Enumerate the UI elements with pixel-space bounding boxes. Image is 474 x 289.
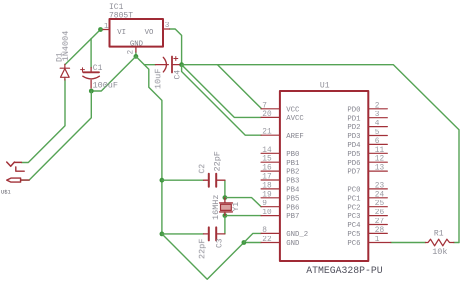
wire C1 minus to jack center: [21, 91, 91, 180]
svg-text:2: 2: [375, 102, 380, 110]
wire 7805 GND pin down: [135, 52, 137, 56]
svg-text:C2: C2: [198, 164, 207, 174]
svg-text:10: 10: [262, 209, 272, 217]
svg-text:2: 2: [128, 50, 136, 55]
svg-text:GND: GND: [130, 41, 144, 49]
svg-text:VI: VI: [117, 29, 126, 37]
svg-text:14: 14: [262, 147, 272, 155]
svg-text:Y1: Y1: [232, 202, 241, 212]
capacitor C3: [204, 227, 225, 240]
svg-text:1: 1: [375, 236, 380, 244]
svg-text:9: 9: [262, 200, 267, 208]
wire C2 right to crystal top: [224, 180, 226, 197]
node C4 plus junction: [179, 62, 184, 67]
svg-text:24: 24: [375, 191, 385, 199]
svg-text:PB4: PB4: [286, 187, 300, 195]
wire C3 left lead link: [162, 233, 204, 235]
node VI junction: [98, 27, 103, 32]
wire GND junction to left gnd bus: [136, 56, 162, 234]
svg-text:1: 1: [104, 23, 109, 31]
regulator pin 1 stub: [103, 29, 110, 31]
svg-text:PD4: PD4: [347, 142, 361, 150]
svg-text:PB3: PB3: [286, 178, 299, 186]
svg-text:PC2: PC2: [347, 204, 360, 212]
svg-text:22pF: 22pF: [213, 151, 223, 171]
svg-text:PD5: PD5: [347, 151, 360, 159]
connector U$1 sleeve contact: [7, 162, 22, 166]
svg-text:ATMEGA328P-PU: ATMEGA328P-PU: [306, 265, 383, 276]
node C1 minus junction: [89, 89, 94, 94]
svg-text:27: 27: [375, 218, 385, 226]
wire GND junction to C1 minus: [91, 56, 136, 91]
svg-text:3: 3: [165, 22, 170, 30]
svg-text:PD3: PD3: [347, 133, 360, 141]
svg-text:21: 21: [262, 129, 272, 137]
svg-text:100uF: 100uF: [93, 81, 119, 91]
capacitor C2: [204, 174, 225, 187]
wire D1 cathode to 7805 VI: [65, 30, 101, 65]
svg-text:PD2: PD2: [347, 124, 360, 132]
svg-text:15: 15: [262, 156, 272, 164]
svg-text:28: 28: [375, 227, 385, 235]
capacitor C4: [156, 57, 180, 73]
svg-text:AREF: AREF: [286, 133, 304, 141]
svg-text:U$1: U$1: [1, 189, 11, 195]
resistor R1: [426, 239, 454, 246]
svg-text:VO: VO: [145, 29, 154, 37]
node gnd pins junction: [242, 240, 247, 245]
crystal Y1: [220, 198, 233, 216]
wire C4 minus link: [144, 64, 155, 66]
wire crystal top to PB6 pin9: [225, 198, 261, 207]
svg-text:PD0: PD0: [347, 106, 360, 114]
svg-text:10k: 10k: [432, 247, 447, 257]
svg-text:23: 23: [375, 182, 385, 190]
svg-text:16: 16: [262, 165, 272, 173]
svg-text:22pF: 22pF: [197, 239, 207, 259]
svg-text:VCC: VCC: [286, 106, 300, 114]
wire crystal bottom to C3 right: [224, 216, 226, 234]
svg-text:10uF: 10uF: [153, 69, 163, 89]
regulator pin 2 stub: [135, 47, 137, 52]
svg-text:R1: R1: [434, 230, 444, 239]
svg-text:22: 22: [262, 236, 272, 244]
svg-text:3: 3: [375, 111, 380, 119]
svg-text:PC3: PC3: [347, 213, 360, 221]
wire junction to AVCC pin20: [182, 65, 262, 118]
svg-text:20: 20: [262, 111, 272, 119]
mcu right pin names: [347, 106, 361, 248]
svg-text:25: 25: [375, 200, 385, 208]
svg-text:16MHz: 16MHz: [211, 194, 221, 220]
svg-text:18: 18: [262, 182, 272, 190]
svg-text:PC0: PC0: [347, 187, 360, 195]
regulator IC1 box: [110, 19, 164, 47]
regulator pin 3 stub: [163, 28, 170, 30]
svg-text:PB6: PB6: [286, 204, 299, 212]
node crystal top junction: [223, 195, 228, 200]
svg-text:17: 17: [262, 174, 272, 182]
mcu U1 box: [280, 91, 368, 261]
svg-text:1N4004: 1N4004: [61, 31, 71, 62]
svg-text:PB1: PB1: [286, 160, 300, 168]
svg-text:11: 11: [375, 147, 385, 155]
svg-text:GND: GND: [286, 240, 300, 248]
svg-text:PC6: PC6: [347, 240, 360, 248]
svg-text:U1: U1: [320, 82, 330, 91]
wire gnd V bottom run: [162, 234, 261, 279]
svg-text:PC5: PC5: [347, 231, 360, 239]
node C2 left junction: [160, 178, 165, 183]
wire C2 left lead link: [162, 179, 204, 181]
svg-text:PD7: PD7: [347, 169, 360, 177]
svg-text:7805T: 7805T: [109, 11, 133, 20]
wire junction to AREF pin21: [182, 65, 262, 136]
svg-text:PB0: PB0: [286, 151, 299, 159]
connector U$1 center pin: [7, 178, 21, 182]
svg-text:C1: C1: [93, 64, 103, 73]
wire rail to VCC pin7: [218, 65, 262, 109]
svg-text:PB2: PB2: [286, 169, 299, 177]
wire to GND_2 pin8: [244, 233, 261, 242]
svg-text:PB5: PB5: [286, 195, 299, 203]
svg-text:19: 19: [262, 191, 272, 199]
svg-text:PD6: PD6: [347, 160, 360, 168]
mcu right pin numbers: [375, 102, 385, 244]
wire VCC main rail: [182, 65, 459, 243]
svg-text:C4: C4: [174, 70, 183, 80]
svg-text:26: 26: [375, 209, 385, 217]
svg-text:GND_2: GND_2: [286, 231, 308, 239]
wire VI pin link: [101, 29, 104, 31]
diode D1: [60, 64, 69, 80]
capacitor C1: [81, 68, 100, 89]
connector U$1 switch contact: [16, 167, 24, 171]
svg-text:6: 6: [375, 138, 380, 146]
node C3 left junction: [160, 232, 165, 237]
wire crystal bottom to PB7 pin10: [225, 215, 261, 217]
svg-text:8: 8: [262, 227, 267, 235]
svg-text:PD1: PD1: [347, 115, 361, 123]
svg-text:7: 7: [262, 102, 267, 110]
node 7805 GND junction: [134, 54, 139, 59]
wire VO to C4 plus: [170, 29, 182, 65]
svg-text:C3: C3: [216, 238, 225, 248]
wire PC6 to R1: [391, 242, 426, 244]
svg-text:PB7: PB7: [286, 213, 299, 221]
svg-text:13: 13: [375, 165, 385, 173]
svg-text:4: 4: [375, 120, 380, 128]
mcu left pin stubs: [261, 109, 280, 243]
wire D1 anode to jack sleeve: [21, 80, 65, 163]
svg-text:PC1: PC1: [347, 195, 361, 203]
svg-text:AVCC: AVCC: [286, 115, 304, 123]
mcu left pin names: [286, 106, 308, 248]
svg-text:5: 5: [375, 129, 380, 137]
mcu left pin numbers: [262, 102, 272, 244]
mcu right pin stubs: [368, 109, 391, 243]
wire C1 plus vertical: [90, 39, 92, 68]
wire R1 to rail: [454, 242, 459, 244]
svg-text:PC4: PC4: [347, 222, 361, 230]
svg-text:12: 12: [375, 156, 385, 164]
node crystal bottom junction: [223, 213, 228, 218]
